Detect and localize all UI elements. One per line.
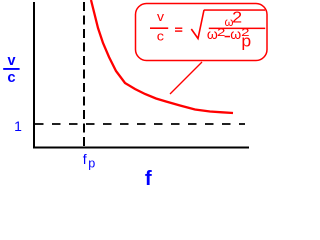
formula: numerator omega^2 [225, 10, 243, 29]
formula: fraction bar inside radical [209, 28, 265, 30]
svg-text:c: c [7, 69, 15, 86]
svg-text:p: p [88, 155, 95, 170]
formula: v/c fraction [150, 9, 168, 43]
x-axis [33, 147, 249, 149]
y-axis [33, 2, 35, 149]
svg-text:p: p [241, 33, 251, 51]
svg-text:1: 1 [14, 118, 22, 134]
dashed vertical line at f_p [83, 2, 85, 147]
callout box (rounded) [136, 4, 268, 61]
callout pointer line [170, 62, 202, 94]
svg-text:ω: ω [230, 26, 241, 42]
formula: denominator omega^2 - omega^2_p [207, 26, 251, 51]
formula: radical overbar [204, 9, 265, 11]
red curve v/c vs f [91, 0, 233, 113]
formula: radical sign [191, 10, 204, 39]
svg-text:2: 2 [217, 27, 225, 39]
axis label v/c (blue fraction) [3, 52, 19, 86]
formula: equals sign [175, 28, 182, 32]
tick label f_p [83, 151, 95, 171]
svg-text:f: f [145, 167, 152, 190]
svg-text:f: f [83, 151, 87, 167]
svg-text:c: c [157, 28, 165, 43]
svg-text:2: 2 [232, 10, 242, 27]
svg-text:v: v [8, 52, 17, 69]
dashed horizontal line at v/c = 1 [35, 123, 245, 125]
svg-text:v: v [157, 9, 165, 24]
